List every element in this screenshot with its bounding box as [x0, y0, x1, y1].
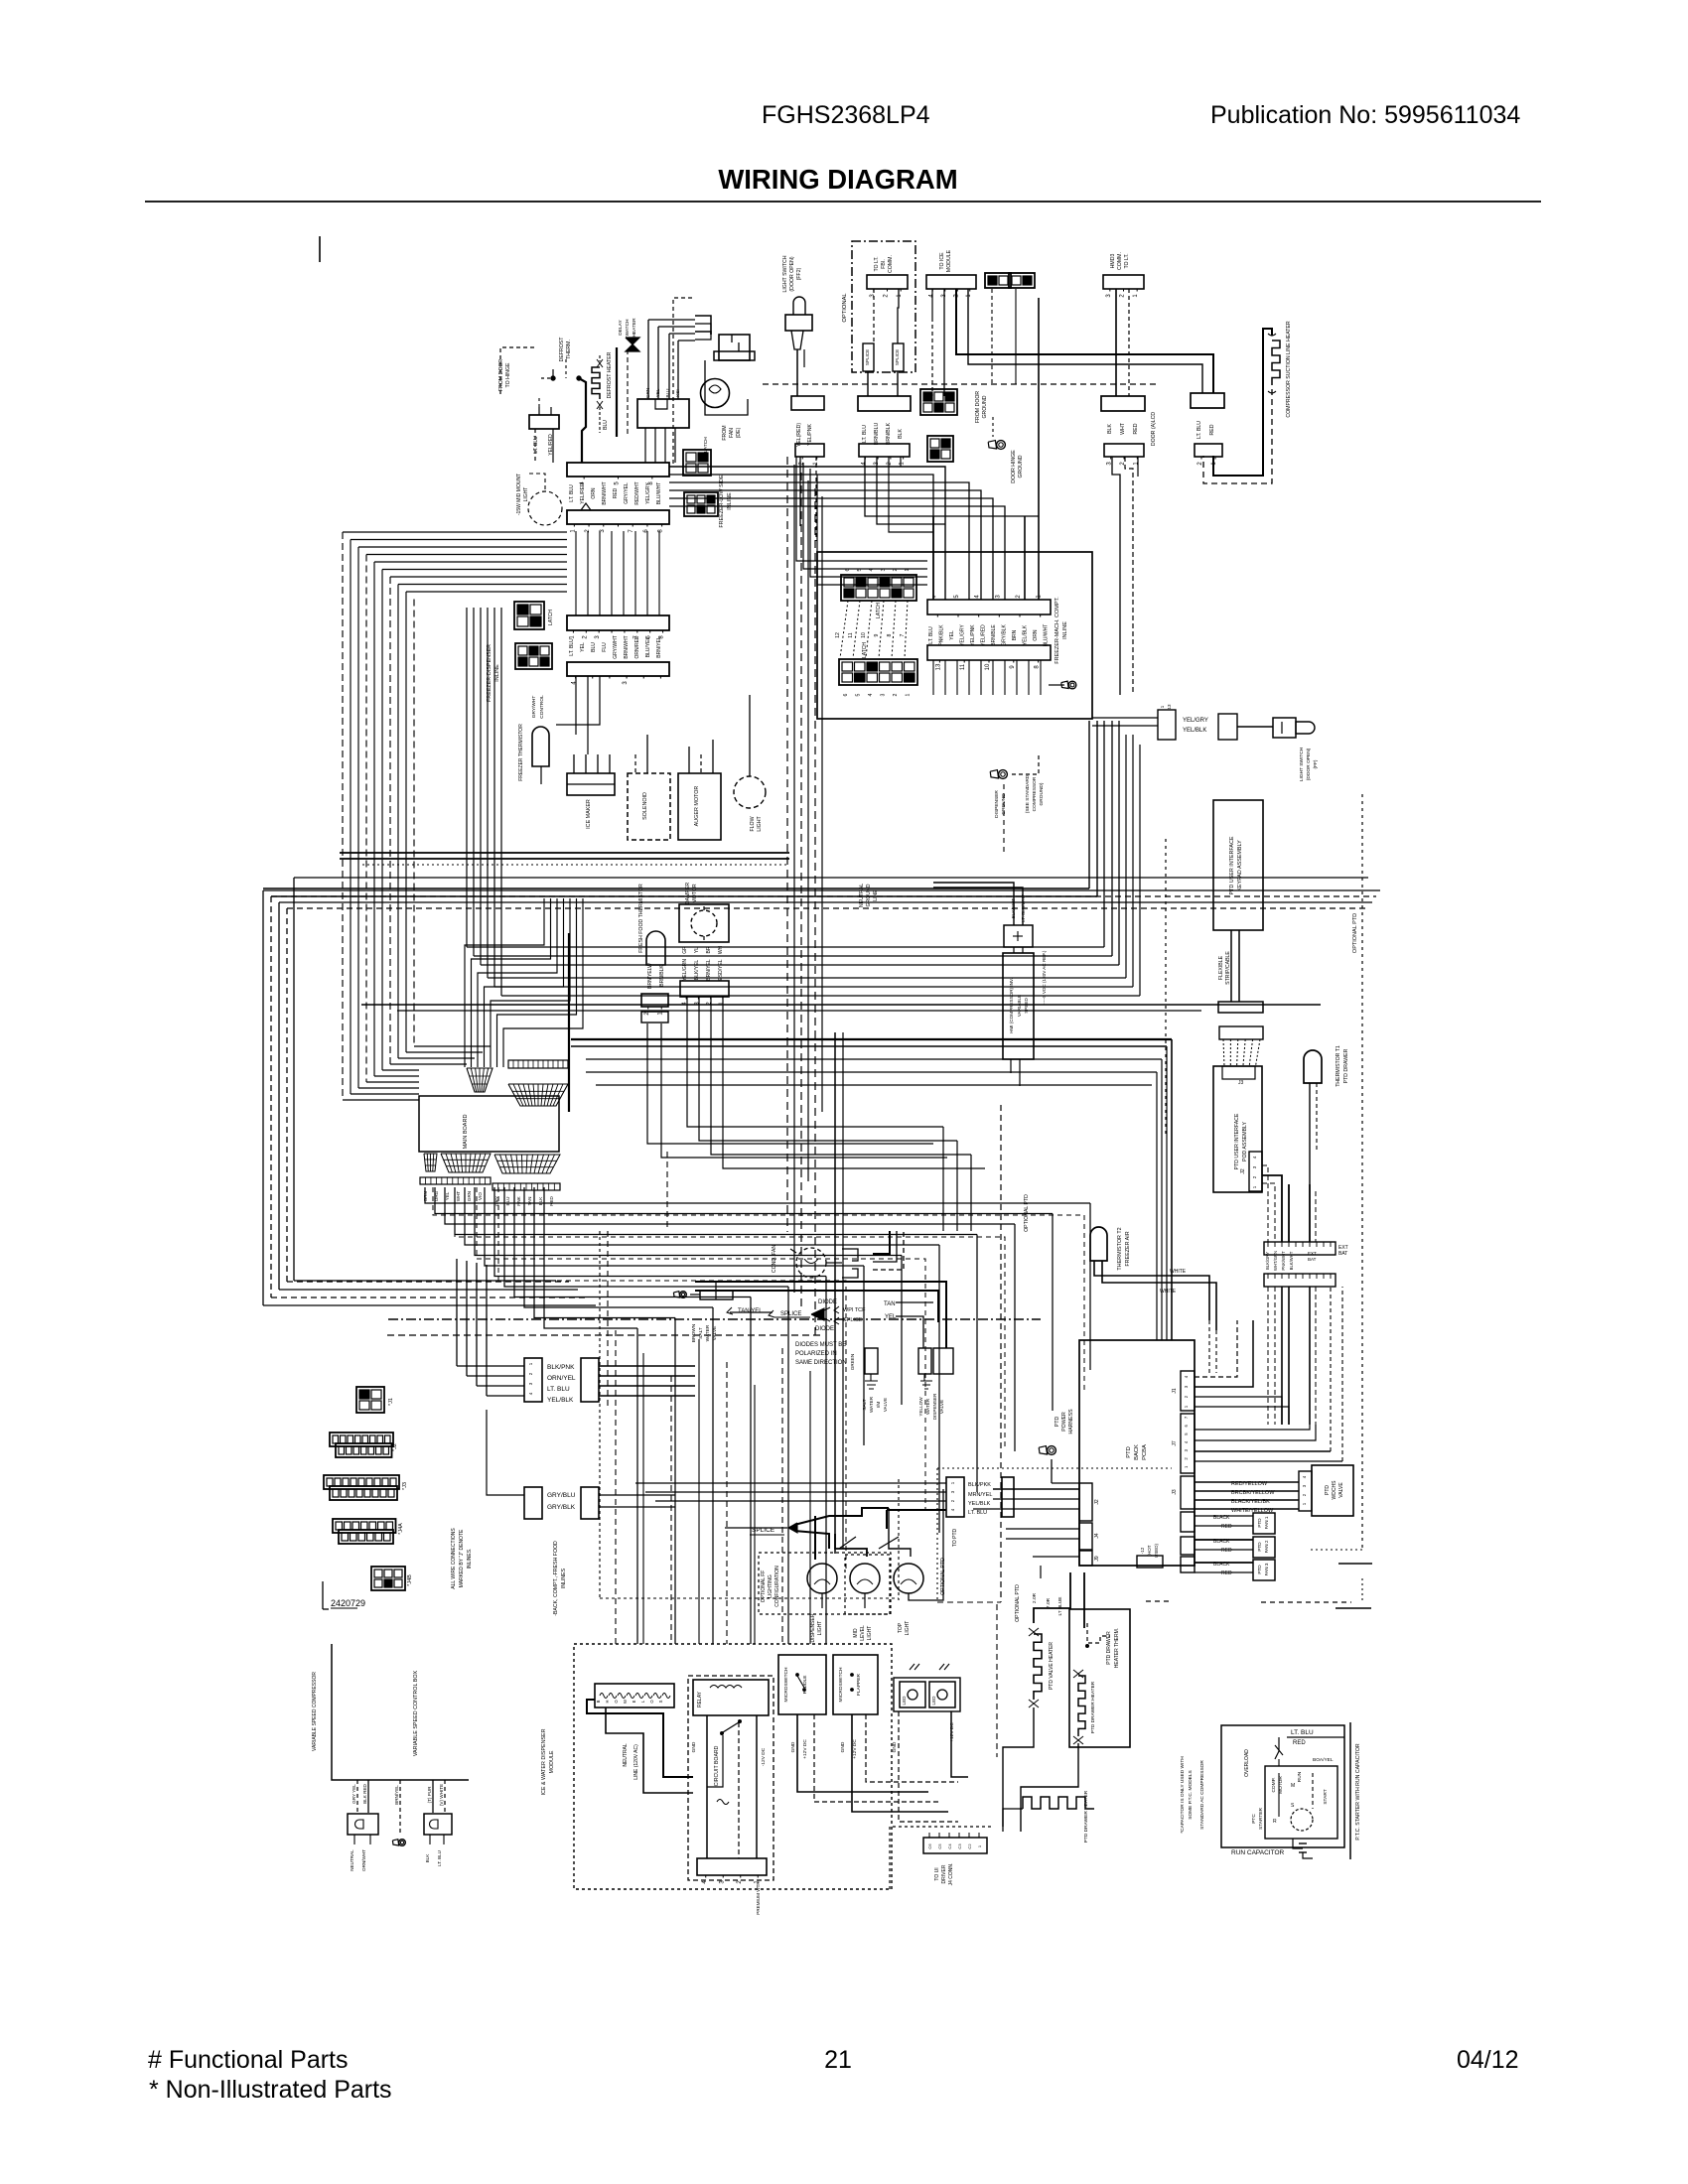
svg-text:FAN 2: FAN 2: [1264, 1540, 1269, 1553]
pcba J8 connector: [1181, 1537, 1195, 1555]
svg-text:C3: C3: [957, 1843, 962, 1849]
svg-text:NEUTRAL: NEUTRAL: [623, 1743, 629, 1767]
ptd user interface keypad assembly box: [1213, 800, 1263, 930]
svg-text:PTD: PTD: [1257, 1542, 1262, 1552]
svg-text:*J3: *J3: [402, 1482, 408, 1490]
svg-text:FRESH FOOD THERMISTOR: FRESH FOOD THERMISTOR: [638, 884, 644, 953]
svg-text:RED: RED: [1221, 1570, 1232, 1576]
svg-text:PREMIUM WTR: PREMIUM WTR: [756, 1881, 761, 1915]
ptc starter outer box: [1221, 1725, 1344, 1847]
svg-text:PNK/BLK: PNK/BLK: [939, 624, 945, 646]
connector freezer bar C: [567, 615, 669, 630]
wires ice module down: [931, 289, 933, 318]
connector to ice module: [926, 275, 976, 289]
svg-text:+12V DC: +12V DC: [852, 1739, 858, 1759]
fresh food thermistor: [646, 931, 665, 965]
svg-text:BOA/YEL: BOA/YEL: [1313, 1757, 1334, 1763]
left margin tick: [319, 236, 321, 262]
svg-text:COMPRESSOR: COMPRESSOR: [1032, 776, 1038, 811]
optional ff lighting dashed box: [759, 1553, 891, 1614]
svg-text:YEL: YEL: [949, 630, 955, 640]
svg-text:3: 3: [595, 635, 601, 639]
svg-text:HEATER THERM.: HEATER THERM.: [1114, 1628, 1120, 1668]
wires hmd3 down: [1115, 289, 1117, 396]
svg-text:GRN: GRN: [467, 1191, 472, 1201]
svg-text:FAN: FAN: [729, 428, 735, 438]
main board bottom fans: [424, 1154, 437, 1171]
svg-text:BLU: BLU: [603, 420, 609, 430]
svg-text:2.0R: 2.0R: [1032, 1592, 1038, 1603]
svg-text:RED/WHT: RED/WHT: [634, 481, 640, 504]
svg-text:2: 2: [1302, 1493, 1307, 1496]
verticals feeding blkpnk pair: [456, 1259, 458, 1366]
svg-text:LIGHT: LIGHT: [867, 1626, 873, 1641]
svg-text:RUN CAPACITOR: RUN CAPACITOR: [1231, 1849, 1285, 1856]
pcba J7 connector: [1181, 1414, 1195, 1473]
ptd valve heater zigzag: [1034, 1634, 1042, 1700]
long thick vertical defrost: [616, 347, 618, 437]
svg-text:1: 1: [1184, 1465, 1189, 1468]
connector J4A: [333, 1519, 396, 1533]
svg-text:2: 2: [582, 635, 588, 639]
connector J1: [356, 1387, 384, 1413]
bottom square wave ptc heater: [1023, 1797, 1094, 1809]
svg-text:PTD USER INTERFACE: PTD USER INTERFACE: [1234, 1113, 1240, 1169]
connector gry/blu pair: [524, 1487, 542, 1519]
svg-text:GROUND: GROUND: [1018, 455, 1024, 478]
svg-text:COMP.: COMP.: [1271, 1777, 1277, 1792]
compressor suction heater right leg: [1213, 329, 1272, 476]
led pair box: [894, 1678, 960, 1711]
svg-text:BRN/YELW: BRN/YELW: [647, 963, 653, 989]
defrost thermostat nodes: [551, 376, 555, 380]
wires ice maker top: [573, 754, 575, 773]
variable speed inverter connector: [1004, 925, 1033, 947]
connector freezer bar A: [567, 463, 669, 477]
svg-text:LT. BLU: LT. BLU: [569, 484, 575, 502]
svg-text:STRIP/CABLE: STRIP/CABLE: [1225, 951, 1231, 985]
svg-text:GRY/YEL: GRY/YEL: [624, 482, 630, 504]
left vertical trunk bundle: [262, 890, 264, 1305]
optional ptd dotted separator mid: [1165, 839, 1167, 1137]
svg-text:DIODE: DIODE: [815, 1326, 834, 1332]
svg-text:5: 5: [615, 481, 621, 485]
svg-text:FAN 3: FAN 3: [1264, 1563, 1269, 1575]
svg-text:INLINE: INLINE: [494, 664, 500, 682]
svg-text:FAN 1: FAN 1: [1264, 1516, 1269, 1529]
inline connector bar 2: [927, 645, 1051, 660]
ground lug right of box: [1068, 681, 1076, 689]
svg-text:+12V DC: +12V DC: [802, 1739, 808, 1759]
connector bottom left 1: [348, 1814, 378, 1835]
svg-text:(V) WHITE: (V) WHITE: [439, 1784, 444, 1806]
svg-text:2: 2: [950, 1499, 955, 1502]
svg-text:2: 2: [1184, 1457, 1189, 1460]
connector J3: [324, 1475, 399, 1489]
svg-text:BLK/WHT: BLK/WHT: [1289, 1251, 1294, 1270]
pcba left J2: [1079, 1483, 1092, 1521]
svg-text:OPTIONAL PTD: OPTIONAL PTD: [1024, 1194, 1030, 1232]
svg-text:3: 3: [600, 529, 606, 533]
svg-text:13: 13: [935, 663, 941, 670]
wires relay to bar A: [644, 428, 646, 463]
svg-text:3: 3: [1252, 1165, 1257, 1168]
svg-text:GND: GND: [691, 1741, 697, 1752]
svg-text:LT. BLU: LT. BLU: [1196, 421, 1202, 439]
circuit board dashed box: [688, 1676, 774, 1880]
right light switch connector: [1158, 710, 1176, 740]
dashed row lower: [387, 1334, 824, 1336]
dashed vertical from dispenser ground: [1003, 784, 1005, 854]
svg-text:CIRCUIT BOARD: CIRCUIT BOARD: [714, 1745, 720, 1786]
svg-text:OPTIONAL FF: OPTIONAL FF: [761, 1570, 767, 1603]
svg-text:YEL/BLK: YEL/BLK: [968, 1501, 991, 1507]
mid level dashed box: [845, 1555, 890, 1614]
svg-text:9: 9: [874, 633, 880, 636]
svg-text:-12: -12: [1140, 1547, 1145, 1554]
svg-text:# Functional Parts: # Functional Parts: [148, 2046, 349, 2074]
svg-text:MARKED BY “J” DENOTE: MARKED BY “J” DENOTE: [459, 1529, 465, 1587]
staircase bundle from main board: [425, 1187, 1090, 1203]
svg-text:TO PTD: TO PTD: [952, 1528, 958, 1547]
svg-text:TO LT.: TO LT.: [874, 256, 880, 271]
svg-text:3: 3: [1302, 1484, 1307, 1487]
svg-text:LIGHTING: LIGHTING: [768, 1574, 774, 1598]
svg-text:BRN/BLK: BRN/BLK: [886, 422, 892, 445]
svg-text:O: O: [614, 1700, 619, 1704]
svg-text:2: 2: [1197, 462, 1203, 466]
svg-text:BRN/WHT: BRN/WHT: [624, 635, 630, 658]
svg-text:OPTIONAL PTD: OPTIONAL PTD: [1015, 1584, 1021, 1622]
control box output wires: [356, 1780, 358, 1813]
latch verticals down: [991, 289, 993, 384]
svg-text:LT. BLU: LT. BLU: [437, 1850, 442, 1866]
inverter wires down: [1010, 1059, 1012, 1073]
top light circle: [894, 1564, 923, 1593]
evaporator fan assembly: [719, 335, 750, 360]
optional box dash-dot: [852, 241, 915, 372]
svg-text:KSI: KSI: [675, 389, 680, 396]
big wires down to heaters: [1034, 1572, 1070, 1623]
svg-text:J1: J1: [1172, 1388, 1178, 1394]
svg-text:LED: LED: [902, 1696, 907, 1706]
dash-dot trunk line: [388, 1318, 1041, 1320]
svg-text:RED: RED: [1221, 1524, 1232, 1530]
svg-text:LIGHT: LIGHT: [905, 1621, 911, 1636]
svg-text:DISPENSER: DISPENSER: [810, 1613, 816, 1642]
svg-text:PTD: PTD: [1325, 1485, 1331, 1495]
svg-text:2: 2: [528, 1372, 533, 1375]
latch grid mid a: [683, 450, 711, 476]
svg-text:3: 3: [995, 595, 1001, 599]
svg-text:MODULE: MODULE: [946, 249, 952, 272]
svg-text:COMPRESSOR SUCTION LINE HEATER: COMPRESSOR SUCTION LINE HEATER: [1286, 321, 1292, 418]
svg-text:FLOW: FLOW: [750, 816, 756, 831]
wire from door bundle: [500, 347, 536, 394]
wires bar D to thermistor: [575, 676, 577, 735]
svg-text:DELAY: DELAY: [618, 320, 624, 336]
svg-text:5: 5: [954, 595, 960, 599]
svg-text:LT. BLU: LT. BLU: [1291, 1729, 1314, 1736]
svg-text:GREEN: GREEN: [850, 1354, 855, 1370]
svg-text:FREEZER AIR: FREEZER AIR: [1125, 1231, 1131, 1266]
wires strips down: [1267, 1287, 1269, 1425]
svg-text:GROUND): GROUND): [1039, 782, 1045, 805]
svg-text:WDCHS: WDCHS: [1332, 1480, 1337, 1500]
main board top fan connector 2: [508, 1084, 568, 1106]
svg-text:4: 4: [1184, 1375, 1189, 1378]
svg-text:2: 2: [1016, 595, 1022, 599]
connector light switch 2pin: [795, 444, 824, 457]
svg-text:HEATER: HEATER: [632, 318, 637, 338]
thick defrost wire: [579, 378, 586, 463]
svg-text:1: 1: [528, 1362, 533, 1365]
latch plug grid right b: [927, 436, 953, 462]
svg-text:*J2: *J2: [392, 1443, 398, 1451]
ice maker connector: [567, 773, 615, 795]
svg-text:9: 9: [1010, 665, 1016, 669]
freezer thermistor: [532, 727, 549, 766]
wire pair to lights: [835, 1534, 867, 1557]
svg-text:10: 10: [985, 663, 991, 670]
svg-text:STARTER: STARTER: [1258, 1807, 1264, 1829]
svg-text:WATER: WATER: [705, 1324, 711, 1341]
ptd fan1 box: [1253, 1513, 1275, 1534]
svg-text:VIO: VIO: [478, 1192, 483, 1200]
second left bundle verticals: [342, 532, 344, 1100]
svg-text:PTD DRAWER: PTD DRAWER: [1343, 1048, 1349, 1083]
svg-text:SALT: SALT: [698, 1327, 704, 1339]
svg-text:YEL: YEL: [445, 1191, 450, 1200]
ptd user interface pod assembly box: [1213, 1066, 1262, 1192]
svg-text:GROUND: GROUND: [982, 395, 988, 418]
svg-text:-15W MID MOUNT: -15W MID MOUNT: [516, 474, 522, 515]
svg-text:BLK/PKK: BLK/PKK: [968, 1482, 991, 1488]
svg-text:4: 4: [950, 1508, 955, 1511]
microswitch flapper box: [833, 1655, 878, 1714]
damper connector: [680, 981, 729, 997]
connector blk/pnk right: [581, 1358, 599, 1402]
svg-text:FGHS2368LP4: FGHS2368LP4: [762, 101, 930, 129]
svg-text:DIODE: DIODE: [818, 1299, 837, 1305]
optional ptd dashed separator right: [1361, 794, 1363, 1550]
svg-text:THERM.: THERM.: [566, 340, 572, 359]
svg-text:FROM: FROM: [722, 425, 728, 440]
wires pcba J7 right: [1195, 1425, 1310, 1430]
svg-text:LIGHT: LIGHT: [817, 1621, 823, 1636]
ice water dispenser module dashed box: [574, 1644, 892, 1889]
svg-text:2: 2: [893, 693, 899, 696]
flex cable foot: [1218, 1002, 1263, 1013]
svg-text:COMM.: COMM.: [1117, 252, 1123, 270]
svg-text:BLK: BLK: [425, 1853, 430, 1863]
svg-text:YEL/RED: YEL/RED: [981, 624, 987, 646]
svg-text:MODULE: MODULE: [549, 1750, 555, 1773]
long pair y895: [263, 887, 1089, 889]
svg-text:4: 4: [975, 595, 981, 599]
therm switch inside: [1087, 1623, 1110, 1643]
svg-text:STANDARD AC COMPRESSOR: STANDARD AC COMPRESSOR: [1199, 1760, 1205, 1830]
svg-text:13: 13: [1167, 704, 1172, 710]
svg-text:*J1: *J1: [388, 1398, 394, 1406]
wires pcba J1 right: [1195, 1320, 1237, 1377]
svg-text:ICE & WATER DISPENSER: ICE & WATER DISPENSER: [541, 1728, 547, 1795]
svg-text:NEUTRAL: NEUTRAL: [859, 884, 865, 907]
connector hmd3 comm: [1103, 275, 1144, 289]
inline connector bar 1: [927, 600, 1051, 614]
junction box center top: [858, 396, 911, 411]
svg-text:LT. BLU: LT. BLU: [547, 1386, 570, 1393]
svg-text:P.T.C. STARTER WITH RUN CAPACI: P.T.C. STARTER WITH RUN CAPACITOR: [1355, 1743, 1361, 1840]
svg-text:HARNESS: HARNESS: [1068, 1409, 1074, 1434]
wires gry pair: [599, 1494, 675, 1496]
freezer mach compartment box: [817, 552, 1092, 719]
svg-text:THERMISTOR T2: THERMISTOR T2: [1117, 1227, 1123, 1270]
svg-text:VALVE: VALVE: [883, 1398, 888, 1412]
long row y1012: [361, 1004, 1321, 1006]
svg-text:8: 8: [887, 633, 893, 636]
pin strip B: [1264, 1274, 1336, 1287]
svg-text:J3: J3: [1238, 1080, 1244, 1086]
svg-text:BLK RED: BLK RED: [362, 1783, 367, 1803]
svg-text:2: 2: [887, 462, 893, 466]
svg-text:SPLICE: SPLICE: [895, 349, 900, 365]
cond fan motor circle: [796, 1248, 826, 1278]
wires lights: [821, 1593, 823, 1608]
svg-text:J7: J7: [1172, 1440, 1178, 1446]
optional ptd dashed separator left: [1000, 1105, 1002, 1602]
optional ptd boundary bottom: [1311, 1549, 1362, 1551]
right vertical bundle to freezer box: [1088, 721, 1090, 888]
wires blkpnk: [599, 1365, 695, 1367]
svg-text:FLU: FLU: [602, 642, 608, 652]
svg-text:BLU: BLU: [591, 642, 597, 652]
to ui driver connector: [923, 1838, 987, 1853]
svg-text:PTD: PTD: [1055, 1417, 1060, 1428]
svg-text:1: 1: [569, 635, 575, 639]
wires from lt.blu connector down: [534, 429, 536, 463]
connector center top 4pin: [859, 444, 910, 457]
wires above solenoid auger: [634, 754, 636, 773]
svg-text:BLU: BLU: [665, 389, 670, 398]
svg-text:TAN: TAN: [527, 1197, 532, 1206]
green im water valve coil: [865, 1348, 878, 1374]
svg-text:DRIVER: DRIVER: [941, 1864, 947, 1883]
svg-text:R: R: [1273, 1819, 1277, 1825]
svg-text:BRN/BLK: BRN/BLK: [659, 965, 665, 987]
svg-text:ALL WIRE CONNECTIONS: ALL WIRE CONNECTIONS: [451, 1528, 457, 1589]
svg-text:2: 2: [1120, 294, 1126, 298]
driver dashed box: [890, 1827, 993, 1889]
splice 1: [863, 343, 874, 371]
svg-text:LEVEL: LEVEL: [860, 1625, 866, 1641]
svg-text:3: 3: [1184, 1385, 1189, 1388]
junction box light switch: [791, 396, 824, 410]
svg-text:5: 5: [1184, 1433, 1189, 1435]
svg-text:RED: RED: [1293, 1740, 1306, 1746]
connector blk/pnk left: [524, 1358, 542, 1402]
svg-text:LT. BLU: LT. BLU: [928, 626, 934, 644]
svg-text:MICROSWITCH: MICROSWITCH: [838, 1667, 844, 1702]
svg-text:1: 1: [1133, 294, 1139, 298]
svg-text:(T) PUR: (T) PUR: [427, 1786, 432, 1804]
svg-text:PTD: PTD: [1126, 1446, 1132, 1458]
svg-text:1: 1: [950, 1481, 955, 1484]
mid level light circle: [850, 1564, 880, 1593]
pod j2 connector: [1249, 1152, 1262, 1191]
svg-text:-BACK, COMPT.,-FRESH FOOD: -BACK, COMPT.,-FRESH FOOD: [553, 1541, 559, 1616]
elbows inside freezer box left: [796, 457, 927, 561]
svg-text:VARIABLE SPEED CONTROL BOX: VARIABLE SPEED CONTROL BOX: [413, 1670, 419, 1756]
ptd fan2 box: [1253, 1537, 1275, 1558]
thermistor t1 ptd drawer: [1304, 1050, 1322, 1083]
svg-text:SPLICE: SPLICE: [780, 1311, 801, 1317]
svg-text:PTD DRAWER HEATER: PTD DRAWER HEATER: [1090, 1681, 1096, 1733]
svg-text:POLARIZED IN: POLARIZED IN: [795, 1351, 837, 1357]
svg-text:GND: GND: [790, 1741, 796, 1752]
svg-text:1: 1: [977, 1844, 982, 1847]
connector to lt fbi comm: [867, 275, 908, 289]
connector lt.blu red: [1191, 393, 1224, 408]
extra long rows y884: [294, 877, 1368, 879]
svg-text:BLK: BLK: [898, 429, 904, 439]
svg-text:1: 1: [1302, 1502, 1307, 1505]
svg-text:OPTIONAL: OPTIONAL: [842, 293, 848, 323]
svg-text:LT. BLU: LT. BLU: [533, 436, 539, 454]
svg-text:10: 10: [861, 632, 867, 638]
svg-text:HMD3: HMD3: [1110, 254, 1116, 269]
connector freezer bar D: [567, 662, 669, 676]
svg-text:12: 12: [835, 632, 841, 638]
connector stack left wires down: [575, 531, 577, 615]
svg-text:C4: C4: [947, 1843, 952, 1849]
svg-text:PTD: PTD: [1257, 1518, 1262, 1528]
svg-text:J4 CONN.: J4 CONN.: [948, 1863, 954, 1886]
svg-text:SALT: SALT: [862, 1399, 867, 1410]
svg-text:BROWN: BROWN: [691, 1323, 697, 1342]
main horizontal bus double: [340, 852, 789, 854]
relay box: [693, 1680, 769, 1715]
pcba left J9: [1079, 1551, 1092, 1566]
svg-text:LED: LED: [931, 1696, 936, 1706]
module input wires: [587, 1700, 693, 1777]
svg-text:TO LT.: TO LT.: [1124, 253, 1130, 268]
svg-text:GRY/WHT: GRY/WHT: [613, 635, 619, 659]
svg-text:YEL/GRY: YEL/GRY: [1183, 718, 1208, 724]
svg-text:YEL/GRY: YEL/GRY: [960, 624, 966, 646]
svg-text:PTC: PTC: [1251, 1814, 1257, 1824]
heater bottom wires: [1003, 1732, 1034, 1827]
svg-text:BLU/YEL: BLU/YEL: [645, 637, 651, 658]
svg-text:YELLOW: YELLOW: [918, 1397, 923, 1417]
svg-text:C2: C2: [967, 1843, 972, 1849]
svg-text:FROM DOOR: FROM DOOR: [498, 359, 504, 392]
svg-text:3: 3: [870, 294, 876, 298]
ptc inner box: [1265, 1766, 1337, 1839]
dispenser ground lug below freezer box: [999, 770, 1008, 779]
svg-text:1: 1: [966, 294, 972, 298]
svg-text:TOP: TOP: [898, 1622, 904, 1633]
svg-text:LT. BLU: LT. BLU: [862, 425, 868, 443]
svg-text:LT BLUE: LT BLUE: [1057, 1596, 1063, 1615]
svg-text:BRN/WHT: BRN/WHT: [602, 481, 608, 504]
svg-text:11: 11: [960, 663, 966, 670]
svg-text:(FF2): (FF2): [796, 267, 802, 280]
connector freezer bar B: [567, 510, 669, 524]
svg-text:1: 1: [1184, 1405, 1189, 1408]
svg-text:INLINES.: INLINES.: [467, 1549, 473, 1570]
svg-text:BRN/BLU: BRN/BLU: [874, 423, 880, 446]
